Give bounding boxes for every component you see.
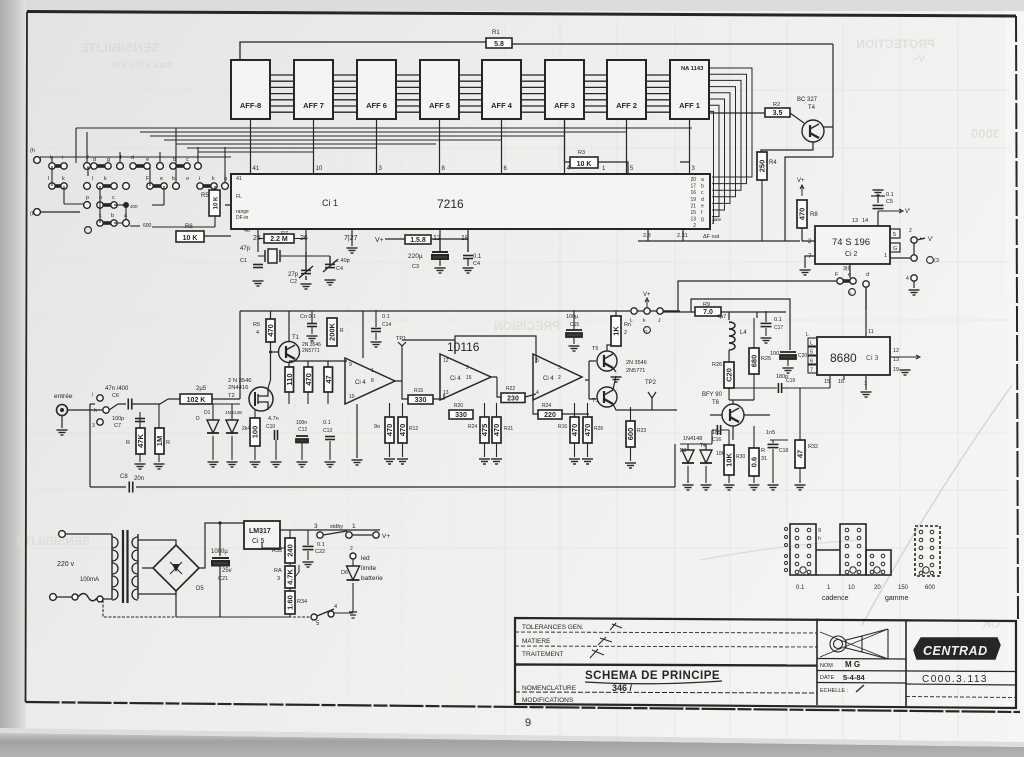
svg-text:T2: T2	[228, 393, 235, 399]
resistor R 200K	[327, 318, 337, 346]
svg-text:680: 680	[750, 355, 759, 368]
svg-text:0.1: 0.1	[323, 420, 331, 426]
svg-text:2: 2	[466, 365, 469, 371]
svg-text:100mA: 100mA	[80, 577, 99, 583]
svg-text:C1: C1	[240, 258, 247, 264]
wire bridge output	[176, 523, 244, 617]
svg-text:0.1: 0.1	[473, 254, 482, 260]
ground pin7/27	[351, 245, 353, 247]
svg-text:0.6: 0.6	[750, 457, 759, 467]
svg-text:M G: M G	[845, 660, 860, 669]
ground R10	[250, 462, 261, 467]
svg-text:cadence: cadence	[822, 595, 849, 602]
wire bottom rail ps	[103, 600, 311, 617]
svg-text:2: 2	[350, 546, 353, 552]
resistor R12	[398, 417, 407, 443]
svg-text:20: 20	[690, 177, 696, 183]
terminal led	[350, 553, 356, 559]
connector pins	[845, 554, 861, 574]
svg-text:AFF 4: AFF 4	[491, 101, 513, 110]
svg-text:stdby: stdby	[330, 524, 343, 530]
svg-text:NA 1143: NA 1143	[681, 66, 704, 72]
svg-text:1K: 1K	[612, 326, 621, 336]
svg-text:3: 3	[92, 423, 95, 429]
svg-text:1n5: 1n5	[766, 430, 775, 436]
transistor	[802, 120, 824, 142]
ground Cn	[307, 336, 318, 341]
svg-text:C10: C10	[266, 424, 275, 430]
svg-text:12: 12	[893, 348, 899, 354]
ground C2	[301, 284, 312, 289]
terminal d2	[84, 183, 91, 190]
resistor R25	[749, 348, 759, 374]
display block AFF 1	[670, 60, 709, 119]
ground resistor R23	[625, 463, 636, 468]
svg-text:2µ5: 2µ5	[196, 386, 207, 392]
svg-text:R1: R1	[492, 30, 500, 36]
display block AFF 2	[607, 60, 646, 119]
svg-text:TP2: TP2	[645, 380, 657, 386]
resistor R5b	[266, 319, 275, 342]
svg-text:150: 150	[898, 585, 909, 591]
capacitor	[717, 425, 720, 435]
capacitor	[371, 329, 381, 332]
svg-text:V+: V+	[375, 237, 384, 244]
ground C18	[768, 485, 779, 490]
svg-text:470: 470	[492, 424, 501, 437]
svg-text:V+: V+	[382, 533, 390, 540]
pin stub boxes right	[890, 229, 900, 238]
capacitor	[325, 264, 335, 267]
svg-text:600: 600	[143, 223, 152, 229]
switch contact	[197, 183, 217, 189]
resistor R21	[492, 417, 501, 443]
svg-text:PROTECTION: PROTECTION	[856, 37, 935, 51]
svg-text:R2: R2	[773, 102, 780, 108]
capacitor C8	[129, 482, 133, 493]
svg-text:d: d	[93, 157, 96, 163]
svg-text:4.7n: 4.7n	[268, 416, 279, 422]
svg-text:220 v: 220 v	[57, 561, 75, 568]
svg-text:8680: 8680	[830, 351, 857, 365]
ground resistor R26b	[582, 459, 593, 464]
svg-text:k: k	[104, 176, 107, 182]
wire pin1 right	[890, 257, 910, 259]
wire R7	[258, 238, 306, 240]
IC U1 7216	[231, 174, 710, 229]
svg-text:ΔF out: ΔF out	[703, 234, 720, 240]
svg-text:41: 41	[253, 166, 260, 172]
capacitor C1	[253, 265, 263, 268]
svg-text:(h: (h	[30, 148, 35, 154]
svg-text:i: i	[199, 176, 200, 182]
terminal h2	[103, 407, 109, 413]
svg-text:16: 16	[838, 379, 844, 385]
resistor R	[405, 235, 431, 244]
svg-text:9: 9	[525, 717, 531, 729]
svg-text:100: 100	[770, 351, 779, 357]
svg-text:R12: R12	[409, 426, 418, 432]
svg-text:i: i	[62, 155, 63, 161]
svg-text:6: 6	[810, 359, 813, 365]
svg-text:R8: R8	[810, 212, 818, 218]
svg-text:240: 240	[286, 544, 295, 557]
terminal p	[84, 202, 91, 209]
svg-text:1M: 1M	[155, 436, 164, 446]
ground C4	[325, 280, 336, 285]
wire: V+ rail analog	[240, 311, 678, 399]
svg-text:R26: R26	[594, 426, 603, 432]
svg-text:15: 15	[466, 375, 472, 381]
svg-text:b: b	[701, 184, 704, 190]
display block AFF 4	[482, 60, 521, 119]
svg-text:31: 31	[761, 456, 767, 462]
svg-text:k: k	[62, 176, 65, 182]
svg-text:8: 8	[371, 378, 374, 384]
svg-text:PRECISION: PRECISION	[494, 319, 560, 333]
svg-text:ECHELLE :: ECHELLE :	[820, 688, 849, 694]
svg-text:20n: 20n	[134, 476, 144, 482]
svg-text:2N 3546: 2N 3546	[626, 360, 647, 366]
ground C22	[303, 562, 314, 567]
svg-text:2: 2	[624, 330, 627, 336]
ground U2	[800, 270, 811, 275]
svg-text:L: L	[630, 318, 633, 324]
svg-text:(3: (3	[934, 258, 939, 264]
ground s3	[909, 290, 920, 295]
svg-text:25v: 25v	[222, 568, 232, 574]
svg-text:10116: 10116	[447, 340, 480, 354]
terminal V+out	[373, 532, 379, 538]
op-amp U3a	[345, 358, 395, 404]
svg-text:R32: R32	[808, 444, 818, 450]
wire tri1 pin10 gnd	[356, 404, 358, 458]
display block AFF 3	[545, 60, 584, 119]
svg-text:R20: R20	[454, 403, 463, 409]
svg-text:R: R	[340, 328, 344, 334]
svg-text:1N4148: 1N4148	[683, 436, 702, 442]
capacitor	[303, 546, 314, 549]
svg-text:batterie: batterie	[361, 575, 383, 582]
svg-text:1.5.8: 1.5.8	[410, 237, 426, 244]
svg-text:TP1: TP1	[396, 336, 406, 342]
svg-text:R21: R21	[504, 426, 513, 432]
transistor	[279, 342, 300, 363]
svg-text:1.60: 1.60	[286, 595, 295, 610]
svg-text:BFY 90: BFY 90	[702, 392, 723, 398]
switch contact	[49, 163, 67, 169]
resistor R7	[264, 234, 294, 243]
wire: display bus segments	[270, 75, 670, 112]
svg-text:d: d	[131, 155, 134, 161]
connector pins	[845, 528, 861, 548]
switch contact	[97, 183, 117, 189]
resistor R3	[570, 157, 598, 168]
terminal d4	[863, 281, 869, 287]
svg-text:C2: C2	[290, 279, 297, 285]
wire LM317 out	[244, 523, 380, 530]
capacitor	[761, 323, 772, 326]
wire T1 emitter row	[289, 361, 347, 367]
svg-text:10 K: 10 K	[577, 161, 592, 168]
terminal b	[34, 209, 41, 216]
svg-text:9: 9	[349, 362, 352, 368]
resistor R5	[209, 190, 220, 216]
connector pins	[870, 554, 885, 574]
terminal s2	[911, 255, 917, 261]
terminal f2	[157, 163, 164, 170]
svg-text:4: 4	[536, 390, 539, 396]
svg-text:10 K: 10 K	[214, 196, 220, 209]
resistor R20	[449, 410, 473, 419]
svg-text:TRAITEMENT: TRAITEMENT	[522, 651, 564, 658]
resistor R7b	[304, 367, 313, 392]
svg-text:400: 400	[130, 204, 138, 209]
connector pins	[919, 555, 934, 575]
svg-text:R5: R5	[201, 193, 209, 199]
ground entree	[57, 430, 68, 435]
svg-text:4: 4	[906, 276, 909, 282]
terminal sw5	[311, 614, 317, 620]
svg-text:3: 3	[558, 365, 561, 371]
svg-text:1: 1	[352, 523, 356, 530]
svg-text:R24: R24	[468, 424, 477, 430]
terminal j2	[97, 395, 103, 401]
svg-text:e: e	[848, 272, 851, 278]
svg-text:0.1: 0.1	[774, 317, 782, 323]
switch contact	[49, 183, 67, 189]
wire pin7 gnd	[805, 256, 815, 268]
terminal J4	[657, 308, 663, 314]
svg-text:k: k	[212, 176, 215, 182]
svg-text:e: e	[160, 176, 163, 182]
svg-text:C20: C20	[725, 368, 734, 382]
svg-text:5-4-84: 5-4-84	[843, 673, 866, 682]
svg-text:R6: R6	[185, 224, 193, 230]
svg-text:100µ: 100µ	[566, 314, 579, 320]
svg-text:0.1: 0.1	[886, 192, 894, 198]
svg-text:2: 2	[558, 375, 561, 381]
svg-text:7.0: 7.0	[703, 309, 713, 316]
connector J4 (dashed)	[915, 526, 940, 576]
ground RA2	[154, 464, 165, 469]
capacitor C5	[877, 196, 879, 226]
svg-text:D6: D6	[341, 570, 348, 576]
diode	[682, 450, 694, 463]
svg-text:10: 10	[349, 394, 355, 400]
wire R8 to 74S196 pin2	[802, 228, 815, 241]
svg-text:g: g	[701, 217, 704, 223]
svg-text:C3: C3	[412, 264, 419, 270]
ground C1	[253, 281, 264, 286]
svg-text:C20: C20	[798, 353, 807, 359]
svg-text:47p: 47p	[240, 246, 251, 252]
svg-text:330: 330	[455, 412, 467, 419]
capacitor C4a trimmer	[323, 256, 337, 272]
svg-text:C6: C6	[112, 393, 119, 399]
resistor R1	[486, 38, 512, 48]
transistor Q2 FET	[249, 387, 273, 411]
capacitor	[768, 444, 779, 447]
svg-text:470: 470	[398, 424, 407, 437]
terminal h	[34, 157, 41, 164]
svg-text:C000.3.113: C000.3.113	[922, 674, 988, 685]
ground C13	[325, 462, 336, 467]
display block AFF 6	[357, 60, 396, 119]
svg-text:10 K: 10 K	[183, 235, 198, 242]
transistor	[597, 351, 617, 371]
svg-text:AFF 7: AFF 7	[303, 101, 324, 110]
ground C3	[435, 268, 446, 273]
svg-text:2N5771: 2N5771	[626, 368, 645, 374]
ground C17	[761, 338, 772, 343]
ground resistor R12	[397, 459, 408, 464]
svg-text:V~: V~	[912, 54, 925, 65]
terminal J	[84, 163, 91, 170]
wire R6 to 7216	[204, 186, 231, 236]
svg-text:o: o	[186, 176, 189, 182]
svg-text:10: 10	[316, 166, 323, 172]
svg-text:47n /400: 47n /400	[105, 386, 129, 392]
svg-text:C22: C22	[315, 549, 325, 555]
svg-text:CENTRAD: CENTRAD	[923, 644, 988, 658]
svg-text:17: 17	[690, 184, 696, 190]
svg-text:SENSIBILITE: SENSIBILITE	[16, 534, 90, 548]
capacitor Cn	[307, 324, 317, 327]
ground U4 right	[900, 370, 911, 375]
svg-text:SENSIBILITE: SENSIBILITE	[79, 40, 160, 55]
resistor R10	[250, 418, 260, 446]
svg-text:600: 600	[925, 585, 936, 591]
wire mains	[56, 534, 112, 599]
svg-text:R4: R4	[769, 160, 777, 166]
svg-text:C18: C18	[779, 448, 788, 454]
terminal g2	[97, 419, 103, 425]
svg-text:Ci 3: Ci 3	[866, 355, 879, 362]
IC U4 8680	[817, 337, 890, 375]
svg-text:b: b	[111, 213, 114, 219]
svg-text:C7: C7	[114, 423, 121, 429]
svg-text:NOMENCLATURE: NOMENCLATURE	[522, 685, 577, 692]
svg-text:0.1: 0.1	[796, 585, 805, 591]
switch letters	[48, 155, 227, 219]
svg-text:gamme: gamme	[885, 595, 908, 602]
svg-text:C12: C12	[298, 427, 307, 433]
svg-text:g: g	[107, 157, 110, 163]
svg-text:13: 13	[690, 217, 696, 223]
switch contact	[130, 163, 150, 169]
ground C4b	[463, 268, 474, 273]
svg-text:DATE: DATE	[820, 675, 835, 681]
switch F-e	[837, 278, 856, 284]
svg-text:470: 470	[385, 424, 394, 437]
svg-text:i: i	[92, 392, 93, 398]
resistor R16	[570, 417, 579, 443]
svg-text:7|27: 7|27	[344, 235, 358, 242]
svg-text:h: h	[818, 536, 821, 542]
svg-text:R26: R26	[712, 362, 722, 368]
svg-text:AFF 2: AFF 2	[616, 101, 637, 110]
terminal l2	[195, 163, 202, 170]
svg-text:R30: R30	[736, 454, 745, 460]
svg-text:R: R	[126, 440, 130, 446]
resistor R6	[176, 231, 204, 242]
svg-text:4µ7: 4µ7	[717, 314, 726, 320]
resistor R32	[795, 440, 805, 468]
svg-text:Ci 1: Ci 1	[322, 198, 338, 208]
svg-text:R34: R34	[297, 599, 307, 605]
terminal L	[631, 308, 637, 314]
diode	[700, 450, 712, 463]
svg-text:20: 20	[874, 585, 881, 591]
svg-text:D3: D3	[680, 448, 687, 454]
svg-text:R23: R23	[637, 428, 646, 434]
svg-text:3: 3	[277, 576, 280, 582]
ground C20	[783, 368, 794, 373]
svg-text:4: 4	[334, 604, 337, 610]
resistor R2	[765, 108, 790, 117]
svg-text:346 /: 346 /	[612, 683, 633, 693]
svg-text:470: 470	[798, 208, 807, 221]
svg-text:e: e	[701, 203, 704, 209]
transistor	[597, 387, 617, 407]
switch contact	[147, 183, 167, 189]
svg-text:47K: 47K	[136, 434, 145, 448]
svg-text:AFF 6: AFF 6	[366, 101, 387, 110]
svg-text:100p: 100p	[112, 416, 124, 422]
svg-text:BC 327: BC 327	[797, 97, 818, 103]
capacitor C2	[301, 270, 311, 273]
wire pins down	[258, 229, 468, 252]
terminal	[50, 594, 57, 601]
logo CENTRAD	[914, 638, 1000, 659]
terminal o	[173, 183, 180, 190]
svg-text:Ci 4: Ci 4	[355, 380, 366, 386]
wire switch to R9	[663, 299, 790, 350]
svg-text:12: 12	[443, 358, 449, 364]
svg-text:475: 475	[480, 424, 489, 437]
display block AFF 5	[420, 60, 459, 119]
svg-text:2: 2	[909, 228, 912, 234]
svg-text:27p: 27p	[288, 272, 299, 278]
svg-text:5: 5	[893, 232, 896, 238]
svg-text:led: led	[361, 555, 370, 562]
ground C15	[569, 346, 580, 351]
resistor R15	[408, 395, 433, 404]
ground C5top	[873, 190, 884, 195]
svg-text:h: h	[94, 408, 97, 414]
transformer TR1	[112, 530, 138, 603]
potentiometer RA body	[285, 566, 295, 588]
svg-text:e: e	[146, 157, 149, 163]
connector J2	[840, 524, 866, 575]
terminal fuse a	[72, 594, 78, 600]
svg-text:c: c	[186, 157, 189, 163]
switch contact	[170, 163, 190, 169]
svg-text:d: d	[701, 197, 704, 203]
svg-text:AFF 3: AFF 3	[554, 101, 575, 110]
svg-text:AFF 5: AFF 5	[429, 101, 450, 110]
svg-text:L: L	[806, 332, 809, 338]
capacitor	[275, 430, 278, 440]
resistor R 102K	[180, 394, 212, 404]
svg-text:7: 7	[810, 368, 813, 374]
wire entree	[68, 404, 126, 410]
svg-text:C14: C14	[382, 322, 391, 328]
terminal sw4	[328, 611, 334, 617]
svg-text:3.5: 3.5	[773, 110, 783, 117]
wire bottom return	[90, 404, 675, 487]
